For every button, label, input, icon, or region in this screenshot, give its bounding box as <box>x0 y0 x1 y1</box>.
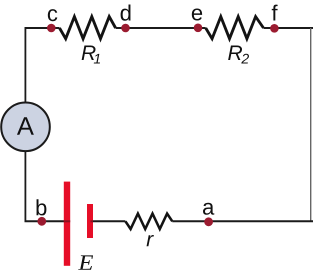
node c <box>47 24 56 33</box>
node e <box>194 24 203 33</box>
wire top-left corner to node c <box>25 27 59 29</box>
label e <box>192 8 202 20</box>
battery short negative plate <box>87 204 93 238</box>
node d <box>121 24 130 33</box>
node b <box>37 217 46 226</box>
wire notch on negative plate <box>91 220 94 222</box>
label R1 <box>82 46 100 64</box>
label R2 <box>228 46 249 64</box>
resistor r zigzag <box>125 214 172 229</box>
label c <box>48 9 57 21</box>
wire battery negative plate to resistor r <box>91 220 125 222</box>
label a <box>203 203 214 215</box>
ammeter U1 circle <box>1 103 50 152</box>
node f <box>270 24 279 33</box>
wire bottom-left corner to battery positive plate <box>25 220 69 222</box>
label b <box>37 199 47 215</box>
wire left vertical lower segment <box>24 151 26 221</box>
wire R2 to top-right corner <box>264 27 314 29</box>
ammeter letter A <box>17 117 34 135</box>
wire between R1 and R2 <box>116 27 206 29</box>
label f <box>272 5 278 21</box>
wire right vertical <box>310 28 312 221</box>
label d <box>121 5 131 21</box>
wire left vertical upper segment <box>24 27 26 103</box>
wire crossing positive plate <box>64 220 70 222</box>
wire resistor r to bottom-right corner <box>172 220 313 222</box>
resistor R1 zigzag <box>60 17 116 39</box>
label EMF script E <box>78 255 93 269</box>
battery long positive plate <box>64 182 70 266</box>
label r <box>147 235 154 246</box>
resistor R2 zigzag <box>206 17 264 39</box>
node a <box>204 217 213 226</box>
